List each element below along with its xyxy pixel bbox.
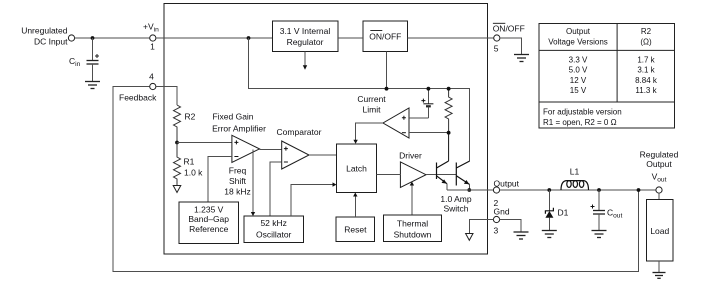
ground (load) xyxy=(653,273,666,279)
svg-text:8.84 k: 8.84 k xyxy=(635,76,658,85)
svg-text:L1: L1 xyxy=(570,167,580,177)
svg-text:1.0 k: 1.0 k xyxy=(184,168,203,178)
node rail tap xyxy=(247,36,251,40)
node resistor rail xyxy=(447,87,451,91)
box 3.1 V internal regulator xyxy=(272,21,338,52)
wire comparator minus to oscillator xyxy=(270,162,282,216)
IC block outline xyxy=(164,4,487,255)
svg-text:18 kHz: 18 kHz xyxy=(224,187,250,197)
box latch xyxy=(337,144,377,193)
wire ON/OFF box to pin 5 xyxy=(407,37,493,39)
wire pin1 to 3.1V regulator xyxy=(156,37,272,39)
svg-text:Band–Gap: Band–Gap xyxy=(188,214,229,224)
svg-text:ON/OFF: ON/OFF xyxy=(369,32,401,42)
box ON/OFF xyxy=(363,21,407,52)
svg-text:Oscillator: Oscillator xyxy=(256,230,292,240)
wire 3.1V box to ON/OFF box xyxy=(338,37,363,39)
wire input to pin 1 xyxy=(75,37,150,39)
wire switch to pin 2 xyxy=(447,189,494,191)
svg-text:Reference: Reference xyxy=(189,224,228,234)
ground (pin 3) xyxy=(514,232,529,239)
node feedback tap xyxy=(637,188,641,192)
wire bandgap to error amp minus xyxy=(208,157,232,203)
ground (input) xyxy=(85,82,100,89)
svg-text:Shutdown: Shutdown xyxy=(394,230,432,240)
wire thermal shutdown to driver xyxy=(411,185,413,215)
wire ON/OFF box to rail xyxy=(386,52,388,89)
ground arrow (internal) xyxy=(466,234,473,241)
svg-text:Thermal: Thermal xyxy=(397,219,428,229)
wire oscillator to latch xyxy=(291,185,333,216)
svg-text:D1: D1 xyxy=(558,208,569,218)
svg-text:Cin: Cin xyxy=(69,56,81,68)
table output voltage versions xyxy=(539,24,675,129)
transistor Q1 (sense) xyxy=(437,133,449,184)
box load xyxy=(647,200,674,262)
box 52 kHz oscillator xyxy=(244,216,304,243)
wire battery to current limit plus xyxy=(409,117,428,119)
svg-text:Regulated: Regulated xyxy=(640,150,679,160)
svg-text:Switch: Switch xyxy=(443,204,468,214)
svg-text:Fixed Gain: Fixed Gain xyxy=(212,112,253,122)
wire pin3 internal ground xyxy=(469,220,493,234)
svg-text:Comparator: Comparator xyxy=(277,127,322,137)
svg-text:15 V: 15 V xyxy=(570,86,587,95)
svg-text:4: 4 xyxy=(149,72,154,82)
diode D1 schottky xyxy=(545,190,568,231)
ground (D1) xyxy=(542,231,557,238)
svg-text:DC Input: DC Input xyxy=(34,37,68,47)
capacitor Cin xyxy=(69,38,99,82)
svg-text:Gnd: Gnd xyxy=(494,207,510,217)
wire output rail xyxy=(500,189,656,191)
svg-text:1.235 V: 1.235 V xyxy=(194,205,224,215)
svg-text:11.3 k: 11.3 k xyxy=(635,86,657,95)
svg-text:3: 3 xyxy=(494,226,499,236)
svg-text:1: 1 xyxy=(150,42,155,52)
svg-text:12 V: 12 V xyxy=(570,76,587,85)
svg-text:3.1 V Internal: 3.1 V Internal xyxy=(280,26,331,36)
transistor Q2 (1.0 Amp switch) xyxy=(456,161,469,186)
svg-text:Unregulated: Unregulated xyxy=(21,26,68,36)
svg-text:+Vin: +Vin xyxy=(143,22,159,34)
resistor current sense xyxy=(445,89,452,133)
node Cin tap xyxy=(91,36,95,40)
wire driver to switch bases xyxy=(426,174,456,176)
svg-text:Error Amplifier: Error Amplifier xyxy=(212,124,266,134)
svg-text:5.0 V: 5.0 V xyxy=(569,66,588,75)
svg-text:Latch: Latch xyxy=(346,164,367,174)
node Cout xyxy=(597,188,601,192)
svg-text:1.7 k: 1.7 k xyxy=(637,56,655,65)
wire pin 5 to ground xyxy=(500,38,522,55)
wire pin4 to R2 xyxy=(156,87,177,106)
svg-text:R1: R1 xyxy=(184,157,195,167)
svg-text:Shift: Shift xyxy=(229,176,247,186)
node switch output xyxy=(467,188,471,192)
svg-text:Output: Output xyxy=(646,159,672,169)
wire junction to error amp xyxy=(177,142,232,144)
wire load to ground xyxy=(658,261,660,273)
wire Q1 emitter to output xyxy=(446,184,448,190)
svg-text:Vout: Vout xyxy=(652,172,667,184)
wire error amp out to comparator xyxy=(260,149,282,151)
svg-text:For adjustable version: For adjustable version xyxy=(543,108,622,117)
ground (pin 5) xyxy=(514,55,529,62)
svg-text:Reset: Reset xyxy=(344,225,367,235)
svg-text:R2: R2 xyxy=(185,112,196,122)
battery reference xyxy=(421,89,433,118)
resistor R2 xyxy=(174,105,181,143)
svg-text:Output: Output xyxy=(566,27,591,36)
svg-text:Load: Load xyxy=(650,226,669,236)
terminal Vout xyxy=(656,187,662,193)
node ON/OFF rail xyxy=(385,87,389,91)
svg-text:3.3 V: 3.3 V xyxy=(569,56,588,65)
terminal: unregulated input xyxy=(68,35,74,41)
ground arrow (R1) xyxy=(173,186,181,193)
svg-text:3.1 k: 3.1 k xyxy=(637,66,655,75)
wire Q2 emitter to output xyxy=(468,184,470,190)
wire latch to driver xyxy=(377,174,401,176)
wire Vout to load xyxy=(658,193,660,199)
resistor R1 xyxy=(174,143,181,186)
svg-text:(Ω): (Ω) xyxy=(640,38,652,47)
capacitor Cout xyxy=(591,190,623,231)
wire pin3 external ground xyxy=(500,220,521,233)
svg-text:5: 5 xyxy=(494,44,499,54)
wire feedback loop xyxy=(113,87,639,272)
box thermal shutdown xyxy=(383,215,441,241)
svg-text:52 kHz: 52 kHz xyxy=(260,218,286,228)
node R2/R1 junction xyxy=(175,141,179,145)
node D1 xyxy=(547,188,551,192)
wire rail tap down xyxy=(249,38,470,161)
wire current limit out to latch xyxy=(356,123,383,141)
svg-text:Voltage Versions: Voltage Versions xyxy=(548,38,608,47)
svg-text:Limit: Limit xyxy=(363,105,382,115)
arrow 3.1V to internal circuits xyxy=(304,52,306,66)
svg-text:R1 = open, R2 = 0 Ω: R1 = open, R2 = 0 Ω xyxy=(543,118,617,127)
wire comparator out to latch xyxy=(309,154,337,156)
svg-text:Feedback: Feedback xyxy=(119,93,157,103)
box 1.235V band-gap reference xyxy=(179,202,239,244)
box reset xyxy=(336,217,374,241)
svg-text:ON/OFF: ON/OFF xyxy=(493,24,525,34)
svg-text:1.0 Amp: 1.0 Amp xyxy=(440,194,471,204)
node battery rail xyxy=(427,87,431,91)
ground (Cout) xyxy=(592,231,607,238)
wire current limit minus to sense node xyxy=(409,132,449,134)
svg-text:Driver: Driver xyxy=(399,151,422,161)
svg-text:Regulator: Regulator xyxy=(287,37,324,47)
wire freq shift to oscillator xyxy=(252,150,254,213)
svg-text:R2: R2 xyxy=(641,27,652,36)
svg-text:Freq: Freq xyxy=(229,166,247,176)
svg-text:Current: Current xyxy=(357,94,386,104)
node sense junction xyxy=(447,131,451,135)
svg-text:Cout: Cout xyxy=(607,208,622,220)
wire reset to latch xyxy=(354,196,356,217)
